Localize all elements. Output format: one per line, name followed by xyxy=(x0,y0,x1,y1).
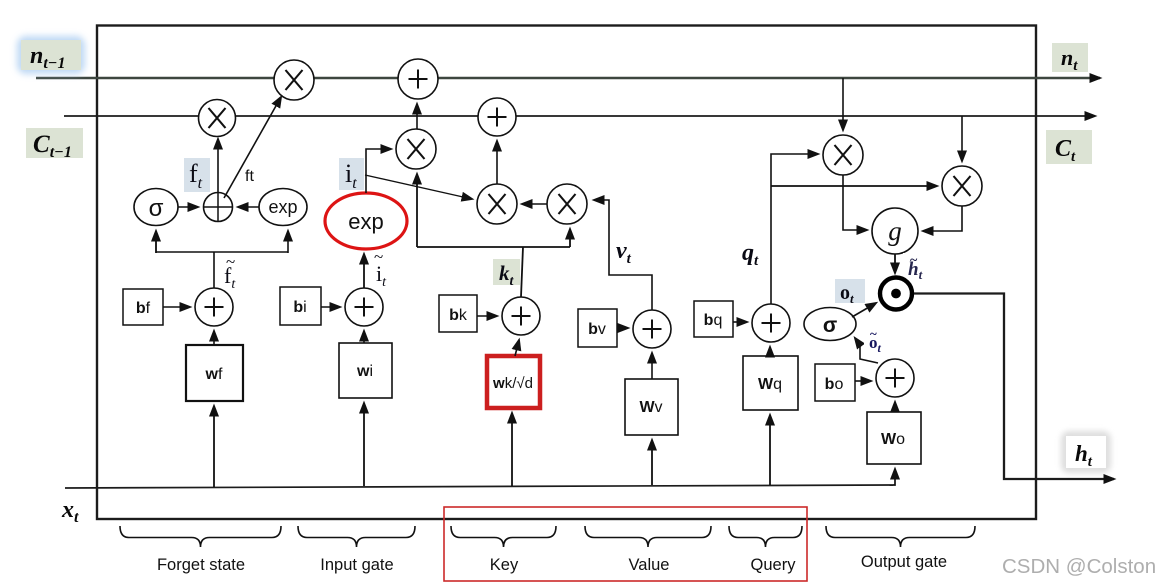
wire exp to oplus xyxy=(238,206,259,208)
brace key xyxy=(451,526,556,547)
svg-text:wi: wi xyxy=(356,363,373,380)
wire k up to X ik xyxy=(416,174,418,247)
svg-text:Input gate: Input gate xyxy=(320,556,393,574)
box Wv xyxy=(625,379,678,435)
wire q branch to X right xyxy=(771,185,937,187)
multiply node X kv xyxy=(547,184,587,224)
wire wv to plus xyxy=(651,353,653,379)
label itilde_t xyxy=(370,247,395,290)
wire x to wk xyxy=(511,413,513,486)
svg-text:Query: Query xyxy=(751,556,797,574)
box bi xyxy=(280,287,321,325)
wire itilde plus to exp ellipse xyxy=(363,254,365,288)
svg-text:Key: Key xyxy=(490,556,519,574)
svg-text:bf: bf xyxy=(136,300,151,317)
label ftilde_t xyxy=(219,252,246,292)
wire k_t from plus xyxy=(521,247,523,297)
label v_t xyxy=(612,228,645,270)
label C_t xyxy=(1046,130,1092,165)
wire k branch horizontal xyxy=(417,246,570,248)
svg-text:Wq: Wq xyxy=(758,376,782,393)
wire bq to plus xyxy=(733,321,747,323)
multiply node X on n line (forget) xyxy=(274,60,314,100)
box bk xyxy=(439,295,477,332)
svg-text:ft: ft xyxy=(245,168,254,185)
wire bi to plus xyxy=(321,306,340,308)
box bv xyxy=(578,309,617,347)
box bo xyxy=(815,364,855,401)
sigma ellipse output xyxy=(804,308,856,341)
wire x to wi xyxy=(363,403,365,486)
add node + key preact xyxy=(502,297,540,335)
wire wf to plus xyxy=(213,331,215,345)
wire wq to plus xyxy=(769,347,771,356)
wire wi to plus xyxy=(363,331,365,343)
svg-text:~: ~ xyxy=(910,253,918,268)
red highlight rectangle key value query xyxy=(444,507,807,581)
svg-text:Wo: Wo xyxy=(881,431,905,448)
brace query xyxy=(729,526,802,547)
svg-text:wf: wf xyxy=(205,366,223,383)
sigma ellipse forget xyxy=(134,189,178,226)
exp ellipse forget xyxy=(259,189,307,226)
svg-text:Output gate: Output gate xyxy=(861,553,947,571)
wire wo to plus xyxy=(894,402,896,412)
wire x to wq xyxy=(769,415,771,485)
box wk/sqrt(d) red xyxy=(487,356,540,408)
wire bf to plus xyxy=(163,306,190,308)
wire i_t diagonal to X kv xyxy=(365,175,472,199)
multiply node X on C line (forget) xyxy=(199,100,236,137)
svg-text:σ: σ xyxy=(823,314,837,337)
svg-text:exp: exp xyxy=(268,197,297,217)
svg-text:bo: bo xyxy=(825,376,844,393)
wire otilde elbow plus to sigma xyxy=(855,338,878,363)
oplus combine node forget xyxy=(204,193,233,222)
add node + value preact xyxy=(633,310,671,348)
add node + output preact xyxy=(876,359,914,397)
wire g to odot xyxy=(894,254,896,273)
label C_{t-1} xyxy=(26,128,83,161)
box bf xyxy=(123,289,163,325)
svg-text:bi: bi xyxy=(293,299,306,316)
wire oplus up to X on C line xyxy=(217,139,219,192)
label otilde_t xyxy=(864,326,893,355)
wire X kv to X ikv xyxy=(522,203,547,205)
wire sigma to odot xyxy=(852,303,876,317)
svg-text:CSDN @Colston: CSDN @Colston xyxy=(1002,555,1156,578)
wire sigma to oplus xyxy=(178,206,198,208)
label x_t input xyxy=(59,491,90,526)
svg-text:g: g xyxy=(888,216,902,246)
svg-text:σ: σ xyxy=(149,195,164,222)
outer cell box xyxy=(97,26,1036,520)
wire v_t elbow to X kv xyxy=(594,200,652,310)
box Wo xyxy=(867,412,921,464)
label o_t xyxy=(835,279,865,306)
brace value xyxy=(585,526,711,547)
wire C down to X out2 xyxy=(961,116,963,161)
label k_t xyxy=(493,259,520,289)
wire C recurrent line xyxy=(64,115,1095,117)
add node + forget preact xyxy=(195,288,233,326)
label n_{t-1} xyxy=(17,36,85,74)
label i_t xyxy=(339,158,364,192)
wire i_t up from exp xyxy=(366,149,391,193)
box Wq xyxy=(743,356,798,410)
svg-text:Value: Value xyxy=(629,556,670,574)
wire bo to plus xyxy=(855,380,871,382)
function node g xyxy=(872,208,918,254)
box wf xyxy=(186,345,243,401)
wire n down to X out1 xyxy=(842,78,844,130)
svg-text:bk: bk xyxy=(449,307,468,324)
wire oplus diagonal ft to X on n line xyxy=(224,97,281,198)
multiply node X out2 (C q) xyxy=(942,166,982,206)
label htilde_t xyxy=(903,253,932,282)
wire x to wv xyxy=(651,440,653,485)
add node + on C line xyxy=(478,98,516,136)
label n_t xyxy=(1052,43,1088,74)
svg-text:Forget state: Forget state xyxy=(157,556,245,574)
label h_t output xyxy=(1061,431,1111,473)
exp ellipse input (red) xyxy=(325,193,407,249)
wire X out1 to g xyxy=(843,175,867,230)
wire x_t input line xyxy=(65,485,893,488)
svg-text:exp: exp xyxy=(348,209,383,234)
wire wk to plus xyxy=(515,340,519,356)
brace output gate xyxy=(826,526,975,547)
brace input gate xyxy=(298,526,415,547)
add node + input preact xyxy=(345,288,383,326)
multiply node X ikv (C path) xyxy=(477,184,517,224)
wire X ik to + n xyxy=(416,104,418,129)
add node + on n line xyxy=(398,59,438,99)
wire odot to h_t output xyxy=(914,294,1114,480)
svg-text:~: ~ xyxy=(870,326,877,341)
brace forget state xyxy=(120,526,281,547)
svg-text:bv: bv xyxy=(588,321,606,338)
add node + query preact xyxy=(752,304,790,342)
wire ftilde split to sigma and exp xyxy=(156,231,288,288)
svg-text:Wv: Wv xyxy=(639,399,662,416)
wire bk to plus xyxy=(477,315,497,317)
svg-text:~: ~ xyxy=(226,252,235,271)
wire bv to plus xyxy=(617,327,628,329)
wire x to wf xyxy=(213,406,215,487)
wire X ikv to + C xyxy=(496,141,498,184)
svg-text:bq: bq xyxy=(704,312,723,329)
box bq xyxy=(694,301,733,337)
wire k up to X kv xyxy=(569,229,571,247)
label q_t xyxy=(738,233,769,271)
wire X out2 to g xyxy=(923,206,962,231)
multiply node X out1 (n q) xyxy=(823,135,863,175)
box wi xyxy=(339,343,392,398)
multiply node X ik (n path) xyxy=(396,129,436,169)
odot hadamard node xyxy=(880,278,912,310)
wire x to wo xyxy=(893,469,895,485)
label f_t xyxy=(184,158,210,192)
wire n recurrent line xyxy=(36,77,1100,79)
wire q_t up and branches xyxy=(771,154,818,304)
svg-text:wk/√d: wk/√d xyxy=(492,375,533,392)
